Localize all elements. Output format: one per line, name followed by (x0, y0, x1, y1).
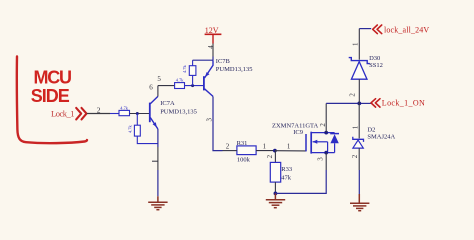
diode D30 schottky cathode bar (349, 58, 370, 64)
wire shunt R to emitter (137, 136, 158, 144)
svg-text:SIDE: SIDE (31, 86, 70, 106)
mosfet IC9 body arrow line (313, 141, 328, 143)
pin IC9 gate (pin 1) (275, 150, 306, 152)
svg-text:4.7k: 4.7k (176, 77, 184, 82)
resistor R31 body (237, 146, 256, 155)
svg-text:1: 1 (351, 125, 359, 129)
diode D30 top pin (pin 1) (358, 29, 360, 60)
diode D30 triangle (351, 62, 367, 80)
diode D2 top pin (pin 1) (358, 103, 360, 138)
wire stub shunt R top (192, 60, 194, 65)
pin resistor to base bar (130, 113, 150, 115)
mosfet IC9 source lead (311, 152, 334, 154)
svg-text:Lock_1: Lock_1 (51, 108, 75, 118)
pin IC9 drain (pin 2) (325, 103, 327, 132)
wire IC7A emitter to ground (157, 170, 159, 196)
port Lock_1_ON chevrons (371, 99, 380, 107)
diode D2 bottom pin (pin 2) (358, 148, 360, 170)
pin resistor to IC7B base bar (185, 85, 204, 87)
svg-text:SS12: SS12 (369, 62, 383, 69)
pin R33 bottom (274, 182, 276, 193)
diode D30 bottom pin (pin 2) (358, 79, 360, 103)
port Lock_1 chevrons (76, 108, 86, 120)
node junction source return (274, 192, 278, 196)
mosfet IC9 body diode stub (334, 143, 336, 152)
pin IC7B emitter (pin 4) (212, 44, 214, 57)
svg-text:4.7k: 4.7k (120, 106, 128, 111)
mosfet IC9 body diode cathode bar (330, 133, 339, 135)
mosfet IC9 body diode triangle (330, 134, 338, 143)
pin IC9 source (pin 3) (325, 153, 327, 170)
node junction Lock_1_ON (357, 102, 361, 106)
pin IC7B collector (pin 3) (212, 96, 214, 126)
wire source return (275, 170, 326, 193)
node junction drain (324, 131, 328, 135)
transistor IC7B collector diagonal (205, 89, 214, 97)
wire drain to node Lock_1_ON (326, 102, 359, 104)
transistor IC7B emitter arrow (205, 72, 209, 77)
transistor IC7B emitter diagonal (205, 60, 214, 78)
svg-text:2: 2 (226, 143, 230, 151)
mosfet IC9 drain lead (311, 132, 334, 134)
node junction IC7A base (136, 112, 139, 115)
svg-text:2: 2 (351, 154, 359, 158)
wire top rail to 12V node (193, 59, 213, 61)
mosfet IC9 body arrow head (312, 140, 317, 144)
ground (left) (148, 196, 167, 209)
pin IC7A base (pin 2) (110, 113, 119, 115)
svg-text:R33: R33 (281, 166, 292, 173)
pin IC7B base (pin 5) wire (158, 85, 175, 87)
diode D2 triangle (353, 140, 363, 148)
pin R31 left (pin 2) (223, 150, 237, 152)
mosfet IC9 body link (327, 142, 329, 153)
svg-text:1: 1 (352, 42, 360, 46)
transistor IC7A emitter diagonal (150, 118, 158, 130)
transistor IC7A collector diagonal (150, 96, 158, 103)
wire stub to internal shunt R (136, 114, 138, 126)
node junction gate (273, 149, 277, 153)
annotation red bracket (MCU side) (17, 57, 87, 144)
svg-text:5: 5 (157, 75, 161, 83)
wire D30 to port lock_all_24V (359, 28, 371, 30)
diode D2 zener cathode bar (353, 137, 364, 142)
resistor internal R (IC7B base-emitter shunt) (189, 66, 196, 76)
resistor R33 body (270, 162, 280, 182)
resistor internal R (IC7B base series) (175, 83, 185, 89)
svg-text:IC9: IC9 (293, 129, 303, 136)
wire stub shunt R bottom (192, 75, 194, 85)
svg-text:1: 1 (263, 143, 267, 151)
node junction source (324, 151, 328, 155)
svg-text:MCU: MCU (34, 68, 73, 88)
svg-text:IC7B: IC7B (216, 58, 231, 65)
svg-text:1: 1 (287, 143, 291, 151)
svg-text:SMAJ24A: SMAJ24A (367, 134, 395, 141)
svg-text:Lock_1_ON: Lock_1_ON (382, 98, 425, 107)
svg-text:6: 6 (149, 84, 153, 92)
svg-text:3: 3 (316, 157, 324, 161)
pin IC7A emitter (pin 1) (157, 129, 159, 147)
svg-text:100k: 100k (237, 157, 251, 164)
transistor IC7A (NPN) base bar (149, 103, 151, 123)
svg-text:4.7k: 4.7k (182, 65, 187, 73)
pin R33 top (pin 2) (274, 151, 276, 163)
wire node to port Lock_1_ON (359, 102, 371, 104)
ground (middle) (266, 193, 285, 207)
svg-text:2: 2 (319, 123, 327, 127)
wire D2 to ground (358, 170, 360, 194)
svg-text:lock_all_24V: lock_all_24V (384, 26, 429, 35)
svg-text:2: 2 (97, 105, 101, 114)
svg-text:47k: 47k (281, 175, 292, 182)
mosfet IC9 gate bar (305, 134, 307, 151)
svg-text:4: 4 (207, 45, 215, 49)
pin number 1 (rotated dash) (152, 160, 158, 162)
wire IC7B collector to R31 (213, 126, 223, 151)
pin R31 right (pin 1) (256, 150, 275, 152)
wire Lock_1 to IC7A base resistor (87, 113, 110, 115)
ground (right) (350, 194, 369, 211)
svg-text:PUMD13,135: PUMD13,135 (216, 66, 253, 73)
port lock_all_24V chevrons (373, 25, 382, 34)
svg-text:2: 2 (266, 154, 274, 158)
svg-text:4.7k: 4.7k (128, 125, 133, 133)
svg-text:PUMD13,135: PUMD13,135 (160, 108, 197, 115)
mosfet IC9 channel bar (310, 132, 312, 154)
svg-text:IC7A: IC7A (160, 100, 175, 107)
pin IC7A collector (pin 6) (157, 86, 159, 97)
node junction IC7B base (191, 84, 194, 87)
resistor internal R (IC7A base-emitter shunt) (134, 125, 140, 136)
svg-text:3: 3 (206, 118, 214, 122)
svg-text:2: 2 (348, 93, 356, 97)
resistor internal R (IC7A base series) (119, 110, 130, 115)
transistor IC7A emitter arrow (153, 122, 157, 127)
transistor IC7B (PNP) base bar (203, 76, 205, 90)
